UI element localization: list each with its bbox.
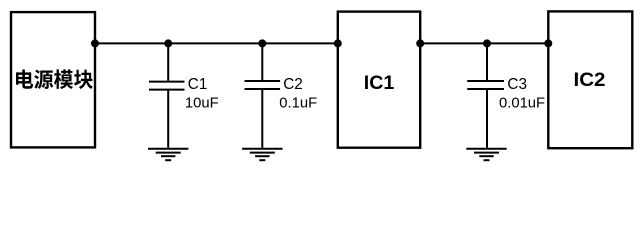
IC U2 box	[548, 11, 632, 148]
label 电源模块	[16, 69, 93, 89]
svg-text:C2: C2	[283, 76, 303, 93]
svg-text:IC1: IC1	[364, 72, 395, 94]
svg-text:0.01uF: 0.01uF	[499, 96, 545, 112]
IC U1 box	[338, 12, 420, 148]
svg-text:C3: C3	[507, 76, 527, 93]
junction dot at C2	[258, 39, 266, 47]
ground under C1	[148, 149, 188, 161]
svg-text:0.1uF: 0.1uF	[279, 96, 317, 112]
wire bus segment 1	[95, 42, 338, 44]
capacitor C3	[467, 43, 504, 147]
svg-text:10uF: 10uF	[185, 95, 219, 111]
ground under C2	[242, 149, 282, 161]
junction dot at IC1 left pin	[334, 39, 342, 47]
junction dot at C1	[164, 39, 172, 47]
ground under C3	[466, 149, 506, 161]
capacitor C1	[149, 43, 185, 147]
power module box 电源模块	[11, 12, 95, 147]
junction dot at IC2 left pin	[544, 39, 552, 47]
junction dot at C3	[483, 39, 491, 47]
svg-text:IC2: IC2	[574, 69, 606, 91]
svg-text:C1: C1	[188, 76, 208, 93]
junction dot at power module output	[91, 39, 99, 47]
wire bus segment 2	[420, 42, 548, 44]
capacitor C2	[245, 43, 281, 147]
junction dot at IC1 right pin	[416, 39, 424, 47]
